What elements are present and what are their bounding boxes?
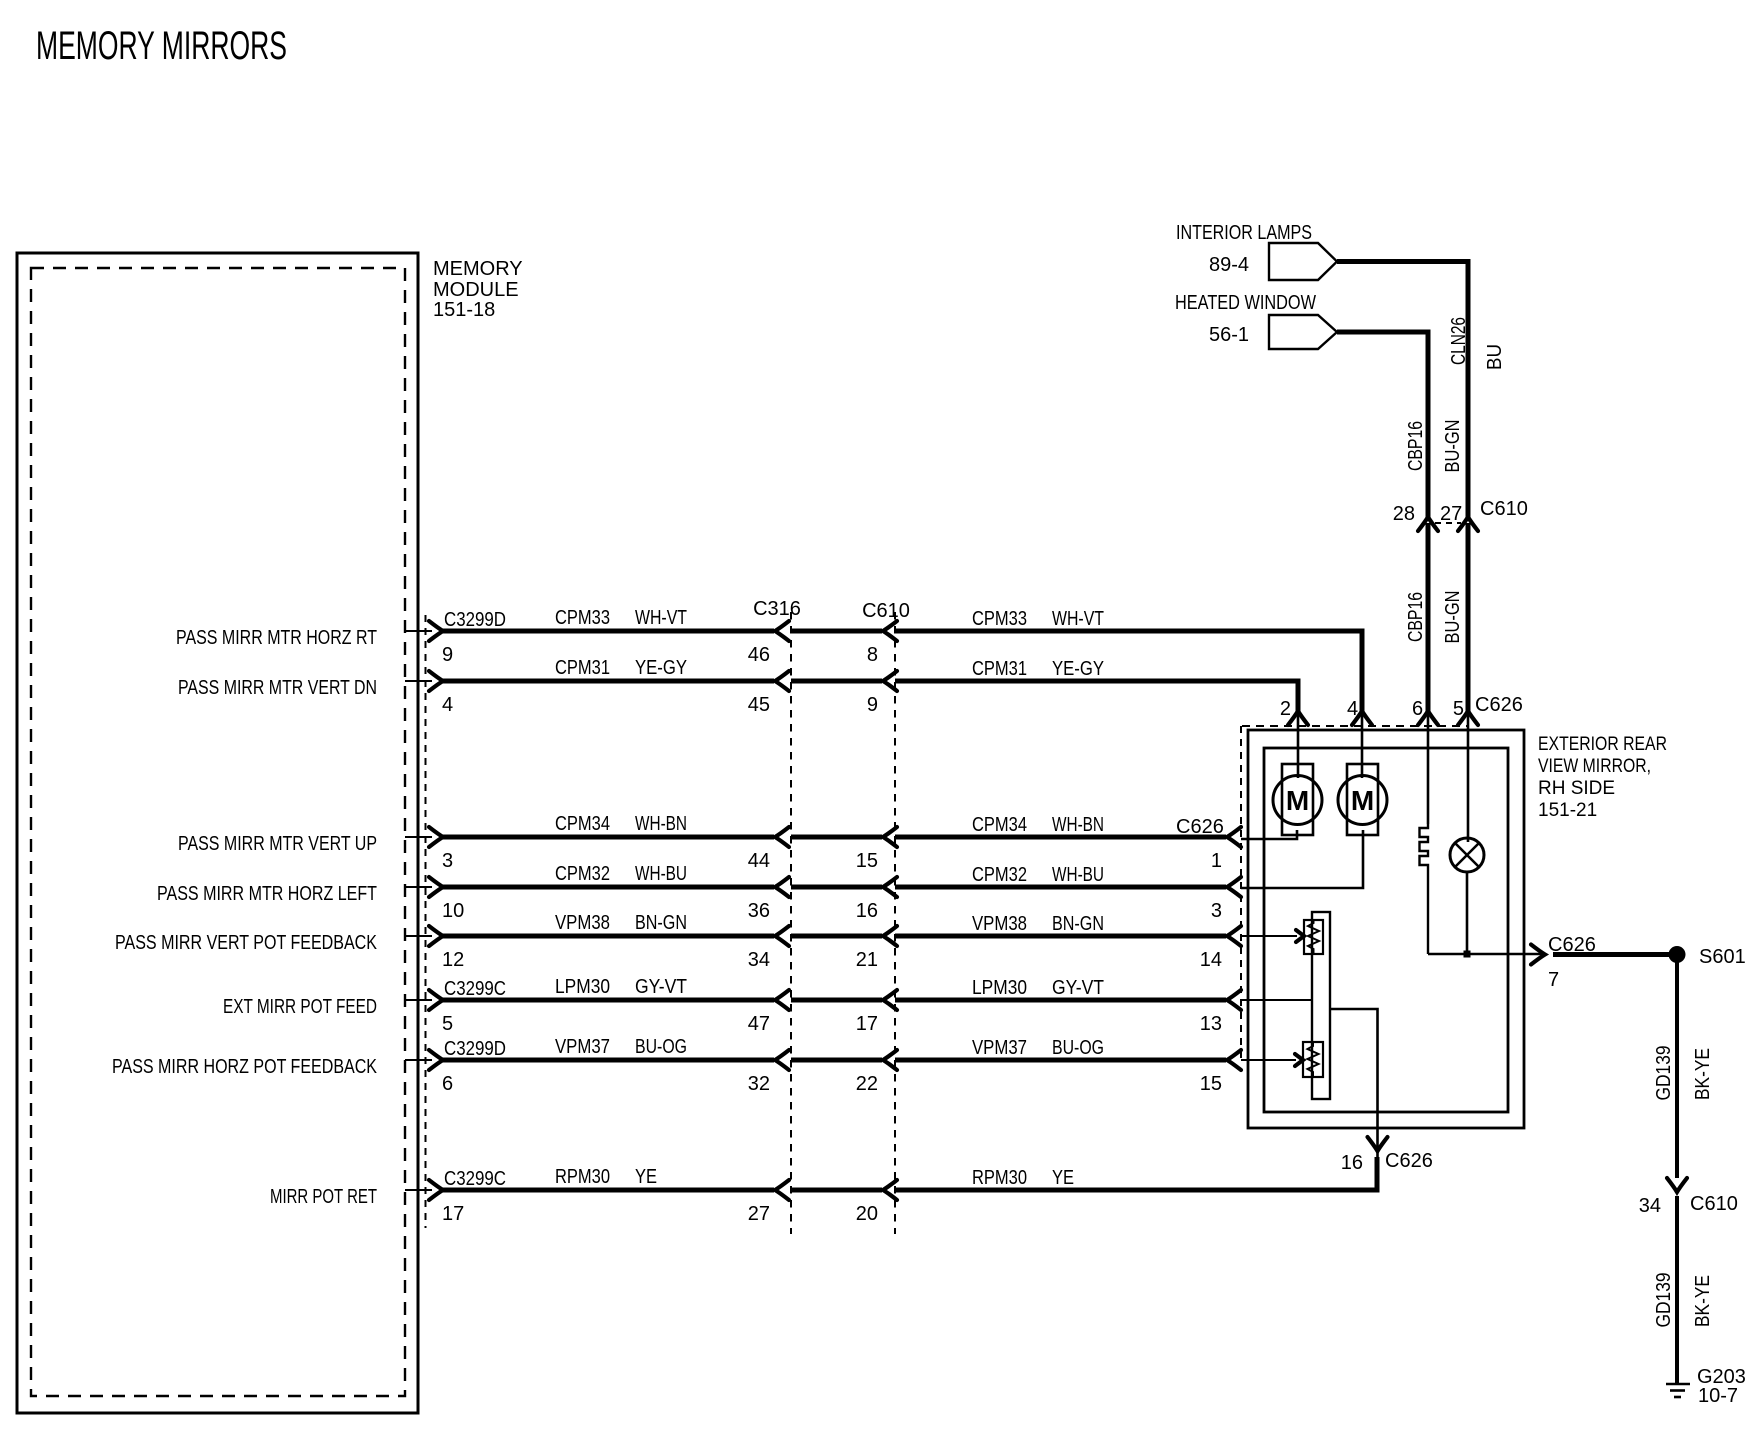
svg-text:89-4: 89-4 [1209,254,1249,276]
svg-text:CBP16: CBP16 [1405,592,1427,642]
svg-text:EXT MIRR POT FEED: EXT MIRR POT FEED [223,996,377,1018]
svg-text:C610: C610 [1690,1193,1738,1215]
svg-text:RPM30: RPM30 [972,1167,1027,1189]
wire BU from interior lamps [1337,262,1468,518]
wire GD139 BK-YE upper [1675,954,1679,1178]
svg-text:VPM37: VPM37 [972,1037,1027,1059]
svg-text:17: 17 [442,1203,464,1225]
potentiometer VR2 (horz) [1303,1042,1323,1077]
label BK-YE upper (rotated) [1692,1048,1714,1100]
wire GD139 BK-YE lower [1675,1196,1679,1384]
svg-text:27: 27 [748,1203,770,1225]
svg-text:CPM34: CPM34 [555,813,610,835]
svg-text:MIRR POT RET: MIRR POT RET [270,1186,377,1208]
wire row VPM37 BU-OG: PASS MIRR HORZ POT FEEDBACK [112,1036,1241,1095]
svg-text:BK-YE: BK-YE [1692,1275,1714,1327]
svg-text:34: 34 [748,949,770,971]
title MEMORY MIRRORS [36,24,287,68]
svg-text:44: 44 [748,850,770,872]
wire row VPM38 BN-GN: PASS MIRR VERT POT FEEDBACK [115,912,1241,971]
connector C610 dashed line (inline) [862,600,910,1234]
svg-text:34: 34 [1639,1195,1661,1217]
connector C3299 dashed line at module edge [425,615,427,1228]
svg-text:14: 14 [1200,949,1222,971]
svg-text:BN-GN: BN-GN [635,912,687,934]
svg-text:PASS MIRR VERT POT FEEDBACK: PASS MIRR VERT POT FEEDBACK [115,932,378,954]
svg-text:16: 16 [856,900,878,922]
svg-text:WH-BU: WH-BU [635,863,687,885]
svg-text:VPM38: VPM38 [555,912,610,934]
svg-text:S601: S601 [1699,946,1746,968]
svg-text:PASS MIRR MTR HORZ RT: PASS MIRR MTR HORZ RT [176,627,377,649]
wire pin3 to motor M2 bottom [1241,830,1363,888]
svg-text:PASS MIRR MTR HORZ LEFT: PASS MIRR MTR HORZ LEFT [157,883,377,905]
wire BU-GN from heated window [1337,332,1428,517]
wire row CPM34 WH-BN: PASS MIRR MTR VERT UP [178,813,1241,872]
svg-text:6: 6 [442,1073,453,1095]
wire pin13 pot feed [1241,999,1312,1001]
svg-text:BU-GN: BU-GN [1442,591,1464,644]
svg-text:PASS MIRR MTR VERT UP: PASS MIRR MTR VERT UP [178,833,377,855]
svg-text:WH-BU: WH-BU [1052,864,1104,886]
svg-text:C3299D: C3299D [444,1038,506,1060]
connector C626 top pins 2 4 6 5 [1280,694,1523,725]
svg-text:13: 13 [1200,1013,1222,1035]
svg-text:C316: C316 [753,598,801,620]
label GD139 upper (rotated) [1653,1046,1675,1101]
svg-text:YE-GY: YE-GY [635,657,687,679]
svg-text:151-21: 151-21 [1538,800,1597,821]
svg-text:27: 27 [1440,503,1462,525]
mirror inner box [1264,748,1508,1112]
label CBP16 upper (rotated) [1405,421,1427,471]
label CBP16 lower (rotated) [1405,592,1427,642]
svg-text:RPM30: RPM30 [555,1166,610,1188]
heater lamp L1 (circle-X) [1450,838,1484,954]
svg-text:C626: C626 [1385,1150,1433,1172]
wire pin15 to VR2 wiper [1241,1054,1303,1066]
wire pin1 to motor M1 bottom [1241,830,1297,839]
svg-text:YE-GY: YE-GY [1052,658,1104,680]
svg-text:C3299C: C3299C [444,1168,506,1190]
svg-text:YE: YE [635,1166,657,1188]
svg-text:21: 21 [856,949,878,971]
svg-text:BU-GN: BU-GN [1442,420,1464,473]
svg-text:WH-VT: WH-VT [635,607,687,629]
svg-text:32: 32 [748,1073,770,1095]
wire row CPM31 YE-GY: PASS MIRR MTR VERT DN [178,657,1298,716]
svg-text:17: 17 [856,1013,878,1035]
memory module U1 outer box [17,253,418,1413]
svg-text:BU-OG: BU-OG [635,1036,687,1058]
svg-text:M: M [1351,785,1374,816]
connector C626 dashed boundary [1241,726,1468,1062]
svg-text:CBP16: CBP16 [1405,421,1427,471]
connector C626 pin 16 [1341,1137,1433,1174]
svg-text:CPM34: CPM34 [972,814,1027,836]
mirror label [1538,734,1667,821]
exterior rear view mirror RH side 151-21 outer box [1248,730,1524,1128]
wire row RPM30 YE: MIRR POT RET [270,1164,1377,1225]
svg-text:C610: C610 [862,600,910,622]
svg-text:HEATED WINDOW: HEATED WINDOW [1175,292,1316,314]
svg-text:10-7: 10-7 [1698,1385,1738,1407]
svg-text:15: 15 [856,850,878,872]
svg-text:M: M [1286,785,1309,816]
label GD139 lower (rotated) [1653,1273,1675,1328]
ground G203 10-7 [1666,1366,1746,1407]
svg-text:C610: C610 [1480,498,1528,520]
svg-text:5: 5 [442,1013,453,1035]
wire row CPM32 WH-BU: PASS MIRR MTR HORZ LEFT [157,863,1241,922]
svg-text:C626: C626 [1475,694,1523,716]
label BK-YE lower (rotated) [1692,1275,1714,1327]
splice S601 [1669,946,1746,968]
potentiometer VR1 (vert) [1304,920,1323,954]
label BU-GN upper (rotated) [1442,420,1464,473]
connector C626 pin 7 exit arrow [1531,934,1596,991]
svg-text:WH-BN: WH-BN [1052,814,1104,836]
svg-text:BU-OG: BU-OG [1052,1037,1104,1059]
svg-text:WH-BN: WH-BN [635,813,687,835]
svg-text:12: 12 [442,949,464,971]
svg-text:28: 28 [1393,503,1415,525]
svg-text:GD139: GD139 [1653,1046,1675,1101]
svg-text:BK-YE: BK-YE [1692,1048,1714,1100]
svg-text:VIEW MIRROR,: VIEW MIRROR, [1538,756,1651,777]
wire C626 pin7 to splice S601 [1553,952,1670,957]
svg-text:GY-VT: GY-VT [1052,977,1104,999]
junction lamp/heater return [1428,951,1544,958]
connector C316 dashed line [753,598,801,1234]
svg-text:2: 2 [1280,698,1291,720]
wire CLN26 BU below C610 [1466,523,1471,711]
label BU (rotated) [1484,344,1506,370]
svg-text:GY-VT: GY-VT [635,976,687,998]
memory module U1 dashed inner border [31,268,405,1396]
wire CBP16 BU-GN below C610 [1426,523,1431,711]
svg-text:45: 45 [748,694,770,716]
svg-text:EXTERIOR REAR: EXTERIOR REAR [1538,734,1667,755]
label BU-GN lower (rotated) [1442,591,1464,644]
svg-text:10: 10 [442,900,464,922]
svg-text:GD139: GD139 [1653,1273,1675,1328]
svg-text:PASS MIRR MTR VERT DN: PASS MIRR MTR VERT DN [178,677,377,699]
svg-text:LPM30: LPM30 [555,976,610,998]
svg-text:BN-GN: BN-GN [1052,913,1104,935]
svg-text:MEMORY: MEMORY [433,258,523,280]
motor M1 [1273,764,1322,835]
svg-text:CPM32: CPM32 [555,863,610,885]
wire pin6 to heater element [1427,714,1430,824]
svg-text:47: 47 [748,1013,770,1035]
svg-text:7: 7 [1548,969,1559,991]
svg-text:PASS MIRR HORZ POT FEEDBACK: PASS MIRR HORZ POT FEEDBACK [112,1056,378,1078]
svg-text:C626: C626 [1176,816,1224,838]
wire pin5 to lamp [1467,714,1470,842]
wire row LPM30 GY-VT: EXT MIRR POT FEED [223,976,1241,1035]
node INTERIOR LAMPS 89-4 feed [1176,222,1337,280]
svg-text:46: 46 [748,644,770,666]
svg-text:20: 20 [856,1203,878,1225]
svg-text:151-18: 151-18 [433,299,495,321]
node HEATED WINDOW 56-1 feed [1175,292,1337,349]
svg-text:56-1: 56-1 [1209,324,1249,346]
wire pin2 to motor M1 [1297,714,1300,778]
svg-text:VPM37: VPM37 [555,1036,610,1058]
svg-text:CPM33: CPM33 [972,608,1027,630]
wire pin4 to motor M2 [1361,714,1364,778]
svg-text:CPM31: CPM31 [972,658,1027,680]
heater element R1 [1420,824,1429,954]
wire pin14 to VR1 wiper [1241,930,1304,942]
svg-text:1: 1 [1211,850,1222,872]
potentiometer assembly body [1312,912,1330,1099]
svg-text:CPM33: CPM33 [555,607,610,629]
svg-text:BU: BU [1484,344,1506,370]
svg-text:9: 9 [867,694,878,716]
svg-text:C3299D: C3299D [444,609,506,631]
svg-text:WH-VT: WH-VT [1052,608,1104,630]
connector C610 pin 34 [1639,1178,1738,1217]
svg-text:9: 9 [442,644,453,666]
wire row CPM33 WH-VT: PASS MIRR MTR HORZ RT [176,607,1362,711]
svg-text:15: 15 [1200,1073,1222,1095]
wire pot return to pin 16 [1330,1009,1378,1157]
svg-text:CPM32: CPM32 [972,864,1027,886]
svg-text:YE: YE [1052,1167,1074,1189]
svg-text:MODULE: MODULE [433,279,519,301]
svg-text:6: 6 [1412,698,1423,720]
memory module label 151-18 [433,258,523,321]
label CLN26 (rotated) [1448,317,1470,365]
svg-text:4: 4 [442,694,453,716]
svg-text:INTERIOR LAMPS: INTERIOR LAMPS [1176,222,1312,244]
svg-text:8: 8 [867,644,878,666]
svg-text:CPM31: CPM31 [555,657,610,679]
svg-text:36: 36 [748,900,770,922]
svg-text:MEMORY MIRRORS: MEMORY MIRRORS [36,24,287,68]
motor M2 [1338,764,1387,835]
connector C610 pins 28 / 27 [1393,498,1528,531]
svg-text:LPM30: LPM30 [972,977,1027,999]
svg-text:16: 16 [1341,1152,1363,1174]
svg-text:C3299C: C3299C [444,978,506,1000]
svg-text:22: 22 [856,1073,878,1095]
svg-text:VPM38: VPM38 [972,913,1027,935]
svg-text:RH SIDE: RH SIDE [1538,778,1615,799]
svg-text:3: 3 [442,850,453,872]
svg-text:3: 3 [1211,900,1222,922]
svg-text:CLN26: CLN26 [1448,317,1470,365]
